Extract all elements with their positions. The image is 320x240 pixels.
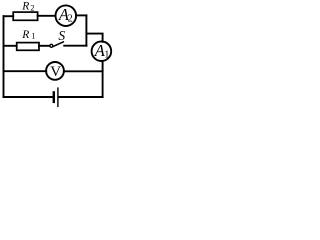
- wire: V to right bus: [64, 70, 103, 72]
- wire: V row left: [4, 70, 47, 72]
- wire: R1 row, left bus to R1: [4, 45, 17, 47]
- ammeter A1: [92, 41, 112, 61]
- resistor R2: [13, 12, 37, 20]
- svg-text:R: R: [21, 0, 29, 12]
- wire: branch node to A1: [86, 34, 102, 42]
- switch S contact: [50, 44, 53, 47]
- battery positive plate (long thin): [57, 88, 59, 106]
- resistor R1: [17, 43, 39, 51]
- wire: bottom row left: [4, 96, 52, 98]
- svg-text:2: 2: [68, 13, 73, 24]
- wire: switch to junction: [64, 45, 86, 47]
- wire: bottom row right: [59, 96, 103, 98]
- svg-text:1: 1: [104, 49, 109, 60]
- wire: R2 to A2: [38, 15, 56, 17]
- svg-text:S: S: [58, 28, 65, 43]
- svg-text:1: 1: [31, 31, 35, 41]
- battery negative plate (short thick): [53, 92, 55, 102]
- svg-text:2: 2: [30, 3, 34, 13]
- voltmeter V: [46, 62, 64, 80]
- svg-text:V: V: [50, 64, 61, 80]
- wire: R1 to switch: [39, 45, 50, 47]
- wire: vertical joining A2 branch and S branch: [85, 15, 87, 45]
- wire: A2 to right corner: [76, 14, 86, 16]
- wire: A1 down right-edge bus: [102, 61, 104, 97]
- svg-text:R: R: [21, 29, 29, 41]
- switch S blade: [53, 42, 64, 47]
- wire: top row, left bus to R2: [4, 15, 14, 17]
- ammeter A2: [56, 5, 77, 26]
- wire: left vertical bus: [3, 16, 5, 97]
